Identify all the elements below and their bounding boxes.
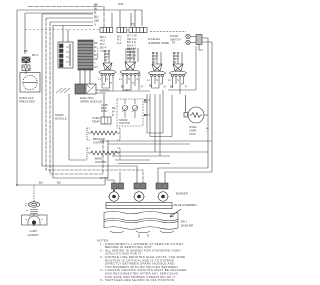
svg-text:P2: P2: [131, 23, 135, 27]
svg-text:IGNITOR: IGNITOR: [95, 160, 106, 164]
text tower cluster 2: [127, 47, 134, 60]
valve solenoid 3: [157, 192, 169, 202]
burner switch cluster 2: [120, 48, 140, 90]
svg-text:GY: GY: [104, 58, 108, 62]
text oven tc: [92, 104, 116, 123]
text broil ignitor: [93, 137, 105, 144]
svg-text:BK: BK: [149, 86, 153, 88]
hatched connector block: [78, 40, 93, 70]
svg-text:W-BU: W-BU: [101, 110, 108, 113]
label P4 surface: [148, 37, 169, 45]
wire cluster bottoms: [102, 46, 196, 90]
wire center bundle: [100, 90, 212, 164]
svg-text:GY: GY: [152, 60, 156, 64]
text extra leg labels: [103, 84, 187, 92]
svg-text:G-3: G-3: [117, 41, 122, 45]
broil ignitor: [87, 128, 120, 140]
valve solenoid 2: [133, 192, 145, 202]
svg-text:P24: P24: [118, 2, 124, 6]
label stack wire codes: [94, 3, 99, 27]
svg-text:GY BU: GY BU: [100, 176, 108, 180]
wire dashed bus 5: [25, 29, 100, 31]
wire right edge vertical 2: [165, 42, 212, 184]
valve connector pair 1: [134, 183, 146, 189]
svg-text:R: R: [112, 113, 114, 117]
wire nested corner 4: [53, 26, 108, 179]
bake ignitor: [87, 148, 120, 160]
manifold: [104, 211, 178, 238]
svg-text:H: H: [133, 82, 135, 85]
plug component left column: [22, 49, 39, 74]
text tower cluster 1: [104, 49, 111, 62]
lamp connector oval: [25, 202, 40, 207]
text tower cluster 4: [173, 51, 180, 64]
svg-text:BAKE BR: BAKE BR: [181, 224, 193, 228]
svg-text:BK: BK: [24, 49, 28, 53]
text lamp: [28, 229, 40, 237]
svg-text:R: R: [94, 49, 96, 53]
text oven lamp: [189, 125, 209, 136]
text legs cluster 4: [168, 79, 183, 86]
svg-text:BK: BK: [94, 41, 98, 45]
svg-text:BU: BU: [57, 181, 61, 185]
text door switch: [170, 34, 181, 45]
svg-text:GASKET: GASKET: [28, 233, 40, 237]
svg-text:ASSY: ASSY: [189, 132, 196, 136]
svg-text:SPARK MODULE: SPARK MODULE: [80, 100, 102, 104]
wire p1b drop: [112, 10, 135, 27]
svg-text:P3: P3: [172, 41, 176, 45]
svg-text:N: N: [128, 78, 130, 81]
svg-text:BURNER: BURNER: [176, 192, 188, 196]
oven tc component: [101, 94, 111, 124]
text spark module lead: [55, 113, 67, 120]
spark module: [56, 70, 110, 94]
svg-text:GY: GY: [94, 65, 98, 69]
text legs cluster 2: [119, 78, 139, 85]
svg-text:SPARK: SPARK: [55, 113, 64, 117]
text legs cluster 3: [147, 79, 162, 86]
svg-text:LAMP: LAMP: [189, 128, 197, 132]
wire module down: [69, 94, 87, 160]
lamp base bars: [26, 210, 38, 214]
wire lamp feed: [34, 181, 61, 203]
text manifold right: [181, 220, 193, 228]
text left vertical pin column: [97, 47, 99, 59]
connector P2 row: [129, 28, 147, 33]
junction dots: [16, 99, 146, 191]
pin stack below P1b: [117, 35, 122, 45]
burner switch cluster 1: [99, 50, 116, 88]
valve body bar: [106, 203, 172, 209]
text spark module: [80, 96, 102, 104]
burner switch cluster 4: [170, 52, 187, 94]
svg-text:MODULE: MODULE: [55, 116, 67, 120]
text tower cluster 3: [152, 51, 159, 64]
connector P1b row: [117, 28, 127, 33]
wire left vertical 2: [25, 13, 93, 54]
svg-text:BK: BK: [170, 87, 174, 89]
svg-text:H: H: [181, 83, 183, 86]
svg-text:H: H: [160, 83, 162, 86]
wire y90 below clusters: [100, 80, 150, 91]
door switch cluster: [150, 32, 212, 51]
svg-text:BU-1: BU-1: [32, 53, 39, 57]
burner switch cluster 3: [149, 52, 166, 88]
svg-text:H: H: [111, 82, 113, 85]
connector P1 row: [100, 28, 113, 33]
text spark ignitor: [119, 100, 148, 125]
svg-text:GY V: GY V: [127, 56, 133, 60]
pointer arrow to manifold: [170, 209, 181, 217]
oven lamp: [184, 95, 208, 123]
svg-text:JUMPER WIRE: JUMPER WIRE: [148, 41, 169, 45]
svg-text:TEMP: TEMP: [92, 119, 100, 123]
text legs cluster 1: [98, 78, 113, 85]
svg-text:N: N: [177, 79, 179, 82]
valve connector pair 2: [156, 183, 168, 189]
pin label stack below P2: [127, 34, 137, 61]
wire top bus line 2: [17, 10, 142, 26]
wire nested corner 1: [42, 14, 137, 184]
wire top bus line 1: [28, 7, 104, 28]
svg-text:5 - SWITCHES ARE SHOWN IN OFF: 5 - SWITCHES ARE SHOWN IN OFF POSITION: [100, 278, 174, 282]
svg-text:N: N: [156, 79, 158, 82]
svg-text:BAKE: BAKE: [95, 157, 102, 161]
text gas valve: [19, 96, 35, 104]
svg-text:BROILER: BROILER: [93, 137, 105, 141]
wire nested corner 3: [50, 21, 93, 23]
svg-text:PRESS REG: PRESS REG: [19, 100, 35, 104]
svg-text:BU: BU: [39, 181, 43, 185]
spark ignitor dashed box: [117, 99, 143, 126]
svg-text:OVEN: OVEN: [92, 116, 100, 120]
wire left vertical main: [17, 10, 80, 185]
wire right edge vertical 1: [158, 38, 208, 184]
valve feeds: [80, 172, 120, 191]
wire terminal feed: [63, 26, 68, 43]
text burner: [173, 192, 197, 208]
oven gas valve: [20, 73, 40, 93]
terminal strip block: [58, 42, 73, 68]
svg-text:VALVE ASSEMBLY: VALVE ASSEMBLY: [173, 203, 197, 207]
lamp bracket and dome: [22, 214, 48, 227]
svg-text:N: N: [107, 78, 109, 81]
svg-text:IGNITOR: IGNITOR: [119, 121, 130, 125]
svg-text:Y: Y: [94, 61, 96, 65]
valve connector pair 0: [112, 183, 124, 189]
wire nested corner 2: [46, 17, 93, 19]
pin label stack below P1: [100, 35, 107, 53]
pin labels right of block: [94, 41, 98, 69]
svg-text:OVEN: OVEN: [189, 125, 197, 129]
valve solenoid 1: [108, 192, 120, 202]
svg-text:BK: BK: [112, 106, 116, 110]
svg-text:BK: BK: [121, 87, 125, 89]
notes block: [97, 239, 187, 283]
text bake ignitor: [95, 157, 106, 164]
svg-text:GY: GY: [173, 60, 177, 64]
